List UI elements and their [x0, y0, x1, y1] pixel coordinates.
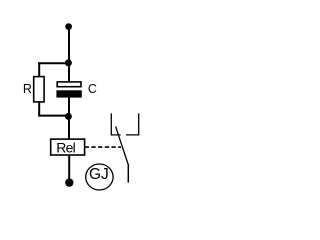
resistor R	[34, 77, 44, 102]
wire: resistor bottom down	[38, 102, 40, 116]
relay contact: switch blade (diagonal)	[116, 127, 129, 165]
node: top supply terminal dot	[65, 23, 72, 30]
relay coil Rel	[51, 139, 85, 155]
svg-text:C: C	[88, 82, 97, 96]
wire: down into resistor top	[38, 62, 40, 76]
wire: relay coil bottom to lower terminal	[68, 155, 70, 180]
wire: dashed mechanical link from Rel to contact blade	[85, 146, 121, 148]
svg-text:Rel: Rel	[56, 140, 75, 156]
wire: capacitor bottom through junction to relay coil	[68, 97, 70, 138]
wire: bottom horizontal back to C branch	[38, 115, 69, 117]
wire: blade lower vertical lead	[127, 164, 129, 183]
svg-text:R: R	[23, 82, 32, 96]
node: junction of R and C branch	[65, 59, 72, 66]
relay contact: left fixed terminal	[111, 113, 120, 134]
indicator GJ circle	[86, 164, 113, 190]
relay contact: right fixed terminal	[126, 113, 139, 134]
capacitor C top plate	[57, 82, 81, 87]
node: junction below capacitor	[65, 113, 72, 120]
capacitor C bottom plate (solid)	[56, 90, 81, 97]
wire: top terminal down to capacitor top plate	[68, 27, 70, 82]
wire: horizontal branch to resistor	[38, 62, 69, 64]
svg-text:GJ: GJ	[89, 166, 109, 183]
node: bottom terminal dot	[65, 178, 73, 186]
